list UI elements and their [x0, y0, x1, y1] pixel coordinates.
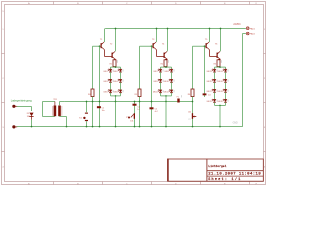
transistor T1	[100, 39, 104, 49]
svg-text:24VDC: 24VDC	[233, 24, 241, 26]
title text Lichtorgel	[208, 164, 226, 168]
title block divider vertical	[206, 159, 208, 181]
resistor R5	[135, 89, 141, 97]
wire T3 base chainA	[139, 46, 141, 89]
wire bracket to bottom rail	[219, 105, 221, 126]
wire top rail	[105, 28, 246, 30]
potentiometer P2	[188, 111, 196, 120]
wire LED bottom bracket	[215, 102, 226, 105]
svg-text:Ladegeräteingang: Ladegeräteingang	[11, 98, 32, 102]
resistor R3	[214, 60, 222, 67]
svg-text:LED12: LED12	[164, 92, 169, 94]
svg-text:LED5: LED5	[104, 92, 108, 94]
junction chainB2-mid	[151, 101, 153, 103]
junction chainA-bottom	[92, 126, 94, 128]
transistor T6	[215, 43, 220, 59]
junction bracket top	[115, 66, 117, 68]
sheet text	[208, 177, 241, 182]
svg-text:LED13: LED13	[207, 71, 212, 73]
wire LED column segs row1	[215, 72, 226, 79]
frame column letters A-F	[28, 2, 258, 185]
wire LED column segs row3	[215, 92, 226, 99]
svg-text:LED19: LED19	[207, 101, 212, 103]
junction rail T5	[209, 28, 211, 30]
svg-text:LED4: LED4	[114, 81, 118, 83]
wire LED column segs row2	[111, 82, 121, 89]
junction rail T6	[220, 28, 222, 30]
transistor T3	[152, 39, 156, 49]
wire diode to bottom rail	[31, 120, 33, 127]
pad PAD1	[246, 27, 255, 31]
LED LED3	[104, 79, 114, 83]
junction P1-bottom	[134, 126, 136, 128]
transistor T5	[205, 39, 209, 49]
svg-text:LED10: LED10	[164, 81, 169, 83]
wire stage stub to bottom rail	[165, 102, 167, 127]
junction chainB-bottom	[99, 126, 101, 128]
wire LED bottom bracket	[161, 93, 172, 96]
junction chainA3-bottom	[192, 126, 194, 128]
svg-text:R3: R3	[214, 64, 216, 66]
junction stage-mid	[115, 101, 117, 103]
LED LED13	[207, 69, 218, 73]
title block outline	[168, 159, 263, 181]
wire transformer primary loop	[43, 102, 55, 117]
junction base-chainB T1	[99, 45, 101, 47]
wire T5 base	[193, 45, 206, 47]
LED LED7	[154, 69, 164, 73]
svg-text:Sheet: 1/1: Sheet: 1/1	[208, 177, 241, 182]
LED LED9	[154, 79, 164, 83]
wire mid rail	[65, 101, 193, 103]
svg-text:LED16: LED16	[218, 81, 223, 83]
junction S1-mid	[86, 101, 88, 103]
wire chainA to rails	[92, 97, 94, 127]
LED LED1	[104, 69, 114, 73]
transformer TR1	[53, 99, 62, 116]
resistor R4	[88, 89, 94, 97]
junction P1-mid	[134, 101, 136, 103]
junction base-chainB T5	[204, 45, 206, 47]
diode D1	[27, 113, 34, 120]
svg-text:21.10.2007 11:04:19: 21.10.2007 11:04:19	[208, 173, 261, 177]
wire T5 chainB	[204, 46, 206, 97]
pad PAD2	[246, 32, 255, 36]
pin connector X1-1	[12, 105, 17, 108]
junction bracket bottom	[219, 105, 221, 107]
title block left edge thick	[167, 159, 169, 182]
svg-text:R4: R4	[88, 94, 90, 96]
frame row numbers	[2, 29, 265, 169]
svg-text:LED20: LED20	[218, 101, 223, 103]
svg-text:LED1: LED1	[104, 71, 108, 73]
junction rail T4	[167, 28, 169, 30]
wire chainA2 to rails	[139, 97, 141, 127]
wire LED top bracket	[111, 67, 121, 69]
resistor R1	[110, 60, 118, 67]
junction chainA3-mid	[192, 101, 194, 103]
wire LED bottom bracket	[111, 93, 121, 96]
frame mark top-left	[2, 11, 4, 13]
wire bracket to mid rail	[165, 96, 167, 102]
wire S1 top	[86, 102, 88, 113]
LED LED16	[218, 79, 229, 83]
svg-text:LED8: LED8	[165, 71, 169, 73]
svg-text:10k: 10k	[130, 121, 133, 123]
title block row line 2	[207, 175, 263, 177]
junction chainA2-mid	[139, 101, 141, 103]
junction chainA-mid	[92, 101, 94, 103]
frame row ticks	[2, 53, 266, 151]
LED LED6	[114, 90, 124, 94]
wire bracket to mid rail	[115, 96, 117, 102]
junction stage-bottom	[219, 126, 221, 128]
capacitor C1	[97, 106, 105, 112]
label GND	[233, 123, 238, 125]
wire LED column segs row2	[161, 82, 172, 89]
junction rail T3	[156, 28, 158, 30]
svg-text:GND: GND	[233, 123, 238, 125]
svg-text:R1: R1	[110, 64, 112, 66]
wire stage stub to bottom rail	[115, 102, 117, 127]
wire pin1 to diode	[17, 107, 32, 112]
wire LED top bracket	[215, 67, 226, 69]
svg-text:LED18: LED18	[218, 91, 223, 93]
frame inner border	[5, 5, 264, 182]
wire bottom rail	[17, 126, 243, 128]
wire T1-T2 link	[104, 49, 111, 56]
svg-text:1u: 1u	[137, 109, 139, 111]
wire chainA3 mid	[192, 97, 194, 127]
wire T3 chainB	[151, 46, 153, 126]
junction stage-mid	[165, 101, 167, 103]
wire transformer secondary top	[60, 102, 65, 106]
wire T5 emitter drop	[209, 29, 211, 43]
svg-text:R5: R5	[135, 94, 137, 96]
LED LED19	[207, 99, 218, 103]
wire S1 bottom	[86, 121, 88, 126]
LED LED2	[114, 69, 124, 73]
wire LED column segs row2	[215, 82, 226, 89]
svg-text:LED6: LED6	[114, 92, 118, 94]
frame column ticks	[53, 2, 249, 185]
junction secondary-bottom	[66, 126, 68, 128]
svg-text:F1: F1	[177, 97, 179, 99]
capacitor C4	[203, 93, 212, 96]
svg-text:TR1: TR1	[53, 99, 57, 101]
svg-text:LED9: LED9	[154, 81, 158, 83]
wire T2 collector to resistor	[115, 58, 116, 61]
LED LED12	[164, 90, 175, 94]
junction stage-bottom	[165, 126, 167, 128]
wire T5 base chainA	[192, 46, 194, 89]
svg-text:4u7: 4u7	[155, 111, 158, 113]
svg-text:LED17: LED17	[207, 91, 212, 93]
wire LED column segs row1	[111, 72, 121, 79]
label Ladegeraeteingang	[11, 98, 32, 102]
svg-text:Lichtorgel: Lichtorgel	[208, 164, 226, 168]
svg-text:LED15: LED15	[207, 81, 212, 83]
capacitor C3	[133, 104, 141, 111]
resistor R6	[188, 89, 194, 97]
LED LED18	[218, 89, 229, 93]
frame outer border	[2, 2, 266, 185]
wire T6 collector to resistor	[219, 58, 221, 61]
junction bracket top	[165, 66, 167, 68]
date text	[208, 173, 261, 177]
wire T4 collector to resistor	[166, 58, 168, 61]
wire resistor to bracket	[218, 66, 220, 69]
wire T5-T6 link	[209, 49, 216, 56]
wire P1 chain top	[134, 102, 136, 127]
transistor T4	[162, 43, 167, 59]
svg-text:LED3: LED3	[104, 81, 108, 83]
wire pad2 to right rail	[243, 33, 246, 35]
junction base-chainB T3	[151, 45, 153, 47]
wire T2 emitter up	[115, 29, 117, 52]
LED LED20	[218, 99, 229, 103]
wire T1 base	[93, 45, 101, 47]
junction diode-bottom	[31, 126, 33, 128]
junction stage-bottom	[115, 126, 117, 128]
wire T4 emitter up	[167, 29, 169, 52]
wire LED column segs row1	[161, 72, 172, 79]
capacitor C2	[150, 107, 159, 113]
junction bracket top	[219, 66, 221, 68]
svg-text:R6: R6	[188, 94, 190, 96]
svg-text:10u: 10u	[102, 110, 105, 112]
transistor T2	[110, 43, 115, 59]
wire T3-T4 link	[156, 49, 163, 56]
junction rail T2	[115, 28, 117, 30]
switch S1	[79, 113, 88, 122]
wire T3 base	[140, 45, 153, 47]
potentiometer P1	[126, 113, 135, 122]
wire resistor to bracket	[165, 66, 167, 69]
pin connector X1-2	[12, 125, 17, 128]
junction bracket bottom	[115, 95, 117, 97]
svg-text:PAD2: PAD2	[250, 33, 256, 36]
resistor R2	[161, 60, 169, 67]
junction bracket bottom	[165, 95, 167, 97]
wire T1 chainB	[99, 46, 101, 126]
svg-text:10k: 10k	[188, 111, 191, 113]
LED LED11	[153, 90, 164, 94]
svg-text:LED2: LED2	[114, 71, 118, 73]
wire right vertical rail	[242, 34, 244, 127]
LED LED5	[104, 90, 114, 94]
label 24VDC	[233, 24, 241, 26]
LED LED4	[114, 79, 124, 83]
wire transformer secondary bottom	[60, 116, 67, 127]
wire T1 emitter drop	[104, 29, 106, 43]
LED LED17	[207, 89, 218, 93]
wire resistor to bracket	[114, 66, 116, 69]
LED LED14	[218, 69, 229, 73]
wire T3 emitter drop	[156, 29, 158, 43]
svg-text:LED11: LED11	[153, 92, 158, 94]
svg-text:LED7: LED7	[154, 71, 158, 73]
wire LED top bracket	[161, 67, 172, 69]
LED LED8	[165, 69, 175, 73]
junction chainA2-bottom	[139, 126, 141, 128]
junction S1-bottom	[86, 126, 88, 128]
svg-text:R2: R2	[161, 64, 163, 66]
junction chainB2-bottom	[151, 126, 153, 128]
junction chainB-mid	[99, 101, 101, 103]
wire T6 emitter up	[220, 29, 222, 52]
fuse F1 in mid rail	[177, 95, 182, 102]
title block row line 1	[207, 170, 263, 172]
LED LED10	[164, 79, 175, 83]
svg-text:PAD1: PAD1	[250, 27, 256, 30]
svg-text:LED14: LED14	[218, 71, 223, 73]
LED LED15	[207, 79, 218, 83]
wire T1 base chainA	[92, 46, 94, 89]
